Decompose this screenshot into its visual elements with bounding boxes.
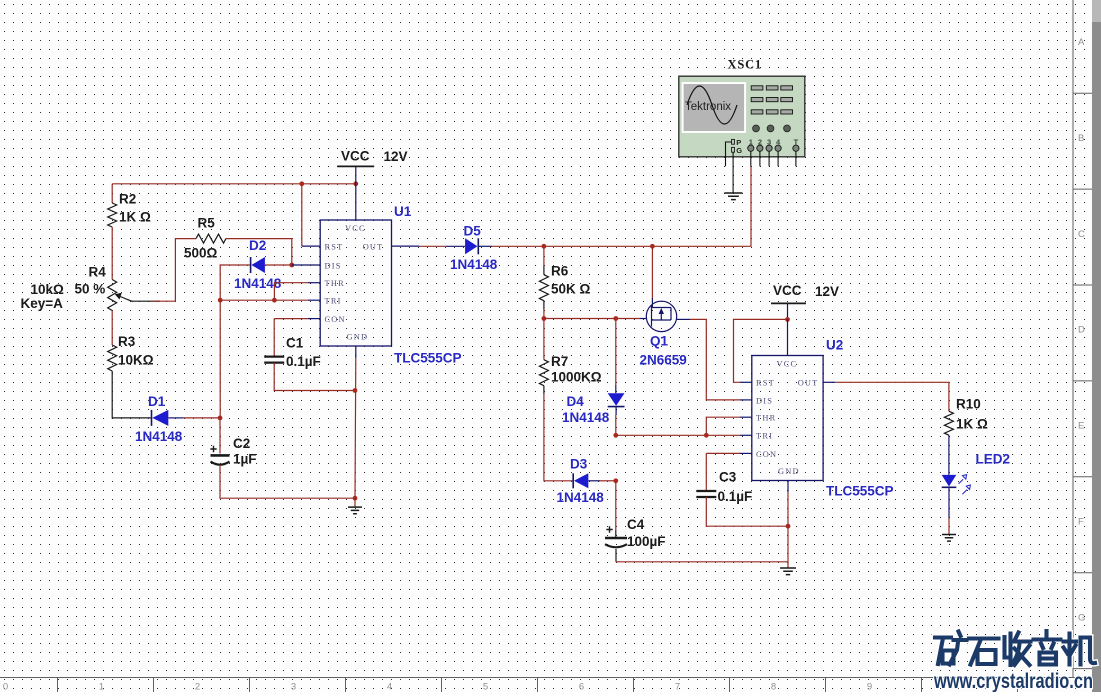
svg-text:0.1µF: 0.1µF — [286, 354, 321, 369]
svg-text:OUT: OUT — [798, 379, 819, 388]
ground under U1 — [348, 507, 362, 514]
svg-text:DIS: DIS — [756, 396, 773, 405]
node TRI/THR junction — [272, 298, 277, 303]
node rail/RST junction — [299, 181, 304, 186]
U1 pin DIS — [325, 261, 342, 270]
wire RST drop from rail — [302, 184, 320, 246]
svg-text:1N4148: 1N4148 — [135, 429, 183, 444]
wire LED2 to ground — [948, 487, 950, 534]
svg-text:D3: D3 — [570, 457, 588, 472]
transistor Q1 2N6659 — [640, 301, 687, 367]
wire R7 bottom to D3 — [544, 386, 573, 481]
wire gate row — [544, 318, 647, 320]
svg-text:B: B — [1078, 133, 1084, 144]
node D3/C4 junction — [613, 478, 618, 483]
power VCC symbol (right) — [771, 283, 839, 319]
border right line with zone ticks — [1073, 0, 1092, 678]
svg-text:XSC1: XSC1 — [728, 58, 762, 72]
svg-text:9: 9 — [867, 682, 872, 693]
resistor R2 — [108, 192, 151, 228]
svg-text:R6: R6 — [551, 264, 569, 279]
wire R7 top lead — [543, 319, 545, 360]
diode D2 1N4148 — [234, 238, 282, 291]
svg-text:F: F — [1078, 517, 1084, 528]
U2 pin RST — [756, 379, 775, 388]
wire CON to C1 — [274, 319, 320, 356]
capacitor C2 1uF polar — [210, 436, 256, 467]
svg-text:2: 2 — [758, 137, 762, 146]
diode D1 1N4148 — [135, 394, 183, 444]
svg-text:E: E — [1078, 421, 1084, 432]
svg-text:R2: R2 — [119, 192, 136, 207]
power VCC symbol (left) — [337, 149, 407, 221]
wire XSC1 probe P dangling — [726, 142, 732, 166]
wire TRI2 row to U2 — [616, 434, 752, 436]
svg-text:2N6659: 2N6659 — [640, 353, 687, 368]
svg-text:RST: RST — [756, 379, 775, 388]
svg-text:10KΩ: 10KΩ — [118, 353, 154, 368]
XSC1 button grid — [751, 86, 792, 114]
node TRI column junction — [218, 298, 223, 303]
svg-text:50 %: 50 % — [75, 282, 106, 297]
svg-text:10kΩ: 10kΩ — [31, 282, 65, 297]
svg-text:D5: D5 — [464, 224, 482, 239]
U2 pin GND — [778, 467, 800, 476]
svg-text:U2: U2 — [826, 338, 843, 353]
svg-text:7: 7 — [675, 682, 680, 693]
XSC1 terminal G — [732, 146, 743, 155]
wire VCC2 to U2 RST — [734, 319, 788, 382]
wire U1 OUT stub — [392, 245, 447, 247]
U2 pin VCC — [777, 359, 798, 368]
svg-text:THR: THR — [325, 279, 345, 288]
wire TRI row to U1 — [220, 299, 320, 301]
node ground junction left — [353, 496, 358, 501]
wire R6 top lead — [543, 246, 545, 274]
svg-text:2: 2 — [195, 682, 200, 693]
svg-text:C3: C3 — [719, 470, 737, 485]
node rail/VCC junction — [353, 181, 358, 186]
wire THR bend to U1 — [274, 283, 320, 301]
resistor R6 — [539, 264, 590, 301]
XSC1 channel terminals 1 2 3 4 T — [748, 137, 799, 151]
svg-text:D2: D2 — [249, 238, 266, 253]
ground under XSC1 — [724, 193, 742, 200]
wire D3 anode to column — [588, 480, 616, 482]
svg-text:1N4148: 1N4148 — [562, 410, 610, 425]
svg-text:4: 4 — [387, 682, 392, 693]
svg-text:12V: 12V — [384, 149, 408, 164]
wire C4 bottom to ground run — [616, 549, 788, 562]
U2 pin CON — [756, 450, 777, 459]
svg-text:RST: RST — [325, 243, 344, 252]
wire R2 to R4 — [111, 227, 113, 280]
IC U2 TLC555CP box — [752, 338, 894, 499]
wire D2 anode to U1 DIS pin — [265, 264, 320, 266]
svg-text:1: 1 — [749, 137, 753, 146]
resistor R3 — [108, 334, 154, 371]
wire R4 to R3 — [111, 311, 113, 346]
svg-text:CON: CON — [756, 450, 777, 459]
wire D1 anode to junction — [168, 417, 220, 419]
svg-text:R3: R3 — [118, 334, 136, 349]
svg-text:1: 1 — [99, 682, 104, 693]
node gate/D4 junction — [613, 316, 618, 321]
wire Q1 drain from junction — [651, 246, 653, 307]
svg-text:R5: R5 — [198, 216, 216, 231]
svg-text:R7: R7 — [551, 354, 568, 369]
svg-text:8: 8 — [771, 682, 776, 693]
wire U2 GND pin column — [787, 481, 789, 562]
capacitor C3 0.1uF — [696, 470, 752, 505]
svg-text:C1: C1 — [286, 336, 304, 351]
node TRI2/THR2 junction — [704, 433, 709, 438]
wire D5 to oscilloscope channel 1 — [492, 166, 751, 246]
node Q1 drain junction — [650, 244, 655, 249]
svg-text:TLC555CP: TLC555CP — [394, 351, 462, 366]
svg-text:Q1: Q1 — [650, 334, 669, 349]
wire R5 right to DIS column — [226, 239, 292, 265]
U1 pin OUT — [363, 243, 384, 252]
svg-text:TRI: TRI — [325, 297, 342, 306]
wire gate junction down to D4 — [615, 319, 617, 394]
svg-text:GND: GND — [347, 333, 369, 342]
svg-text:1K Ω: 1K Ω — [956, 417, 988, 432]
wire THR2 bend to U2 — [706, 417, 752, 435]
U2 pin OUT — [798, 379, 819, 388]
node C3/GND2 junction — [786, 524, 791, 529]
svg-text:LED2: LED2 — [976, 452, 1011, 467]
svg-text:TRI: TRI — [756, 432, 773, 441]
wire R3 to D1 — [112, 371, 151, 418]
svg-text:0: 0 — [3, 682, 8, 693]
svg-text:OUT: OUT — [363, 243, 384, 252]
svg-text:DIS: DIS — [325, 261, 342, 270]
node C1/GND column junction — [353, 388, 358, 393]
svg-text:TLC555CP: TLC555CP — [826, 484, 894, 499]
node D1/C2 junction — [218, 416, 223, 421]
watermark url www.crystalradio.cn — [933, 670, 1093, 693]
U2 pin THR — [756, 414, 776, 423]
svg-text:6: 6 — [579, 682, 584, 693]
svg-text:THR: THR — [756, 414, 776, 423]
capacitor C4 100uF polar — [605, 517, 666, 549]
U2 pin DIS — [756, 396, 773, 405]
svg-text:VCC: VCC — [341, 149, 370, 164]
right gray scrollbar strip — [1092, 0, 1101, 692]
U1 pin RST — [325, 243, 344, 252]
svg-text:Tektronix: Tektronix — [685, 101, 731, 113]
svg-text:1K Ω: 1K Ω — [119, 210, 151, 225]
svg-text:D4: D4 — [567, 394, 585, 409]
node DIS junction — [289, 263, 294, 268]
svg-text:www.crystalradio.cn: www.crystalradio.cn — [933, 670, 1093, 692]
IC U1 TLC555CP box — [320, 204, 461, 366]
ground under LED2 — [942, 535, 956, 542]
svg-text:C: C — [1078, 229, 1085, 240]
XSC1 knobs — [753, 125, 791, 132]
svg-text:U1: U1 — [394, 204, 412, 219]
potentiometer R4 — [21, 265, 133, 312]
U1 pin TRI — [325, 297, 342, 306]
wire D2 cathode to TRI column — [220, 265, 250, 300]
svg-text:1N4148: 1N4148 — [450, 257, 498, 272]
svg-text:C2: C2 — [233, 436, 250, 451]
svg-text:VCC: VCC — [345, 224, 366, 233]
svg-text:VCC: VCC — [777, 359, 798, 368]
wire R2 top lead — [111, 184, 113, 203]
wire C2 bottom to ground run — [220, 465, 355, 498]
node VCC2 junction — [785, 317, 790, 322]
svg-text:D: D — [1078, 325, 1085, 336]
resistor R10 — [944, 397, 988, 436]
svg-text:G: G — [1078, 612, 1085, 623]
svg-text:1N4148: 1N4148 — [557, 490, 605, 505]
node D4/TRI2 junction — [613, 433, 618, 438]
capacitor C1 0.1uF — [264, 336, 321, 370]
U1 pin GND — [347, 333, 369, 342]
wire D3 junction down to C4 — [615, 481, 617, 538]
svg-text:500Ω: 500Ω — [184, 246, 218, 261]
svg-text:GND: GND — [778, 467, 800, 476]
diode D4 1N4148 — [562, 393, 625, 425]
svg-text:0.1µF: 0.1µF — [718, 489, 753, 504]
watermark logo 矿石收音机 (drawn strokes) — [935, 631, 1095, 665]
ground under U2 area — [780, 562, 796, 575]
wire R10 to LED2 — [948, 435, 950, 475]
LED LED2 — [942, 452, 1010, 495]
svg-text:R10: R10 — [956, 397, 981, 412]
border zone letters A-G — [1078, 37, 1085, 623]
svg-text:3: 3 — [291, 682, 296, 693]
XSC1 terminal stubs — [751, 151, 796, 166]
svg-text:12V: 12V — [815, 284, 839, 299]
wire R6 bottom lead — [543, 301, 545, 319]
node R6/gate junction — [542, 316, 547, 321]
svg-text:R4: R4 — [89, 265, 107, 280]
wire R4 wiper to R5 column — [132, 239, 197, 302]
svg-text:5: 5 — [483, 682, 488, 693]
wire C1 bottom to GND column — [274, 363, 355, 391]
XSC1 terminal P — [732, 138, 742, 147]
U2 pin TRI — [756, 432, 773, 441]
svg-text:CON: CON — [325, 315, 346, 324]
U1 pin VCC — [345, 224, 366, 233]
svg-text:3: 3 — [767, 137, 771, 146]
border bottom ruler line and ticks — [0, 678, 1092, 693]
wire U1 GND column — [354, 346, 357, 507]
wire D4 cathode to TRI row — [615, 407, 617, 436]
resistor R5 — [184, 216, 226, 261]
wire VCC2 to U2 VCC pin — [787, 319, 789, 355]
svg-text:VCC: VCC — [773, 283, 802, 298]
instrument XSC1 oscilloscope body — [679, 76, 805, 157]
svg-text:G: G — [736, 146, 742, 155]
wire U2 OUT to R10 — [823, 382, 949, 411]
wire top VCC rail — [112, 183, 356, 185]
instrument XSC1 label — [728, 58, 762, 72]
svg-text:T: T — [794, 137, 799, 146]
svg-text:Key=A: Key=A — [21, 296, 64, 311]
svg-text:C4: C4 — [627, 517, 645, 532]
svg-text:1µF: 1µF — [233, 452, 257, 467]
svg-text:50K Ω: 50K Ω — [551, 282, 591, 297]
svg-text:100µF: 100µF — [627, 534, 666, 549]
U1 pin THR — [325, 279, 345, 288]
border ruler numbers 0-9 — [3, 682, 872, 693]
diode D3 1N4148 — [557, 457, 605, 506]
wire U2 CON to C3 — [706, 453, 752, 490]
wire XSC1 G to ground — [732, 152, 734, 193]
wire C3 bottom to U2 GND column — [706, 497, 788, 526]
svg-text:A: A — [1078, 37, 1085, 48]
U1 pin CON — [325, 315, 346, 324]
svg-text:D1: D1 — [148, 394, 166, 409]
wire TRI column down to C2 — [219, 300, 221, 453]
diode D5 1N4148 — [446, 224, 498, 273]
resistor R7 — [539, 354, 601, 386]
node R6 top junction — [542, 244, 547, 249]
wire Q1 source to U2 DIS — [677, 319, 752, 400]
svg-text:1000KΩ: 1000KΩ — [551, 370, 602, 385]
